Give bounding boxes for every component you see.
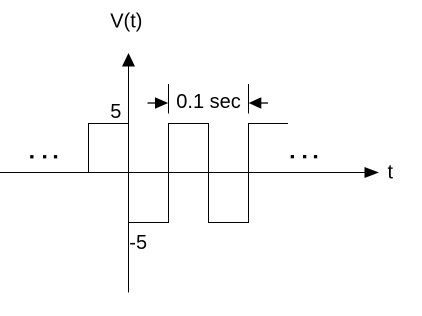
period dimension tick right [248, 84, 250, 114]
right ellipsis dots [291, 155, 317, 158]
svg-text:5: 5 [110, 101, 121, 123]
square wave polyline [89, 124, 289, 223]
V(t)-axis (vertical axis line) [128, 60, 130, 293]
svg-text:0.1 sec: 0.1 sec [176, 91, 240, 113]
t-axis arrowhead [365, 167, 380, 178]
right dimension arrow (points left) [249, 97, 268, 109]
left ellipsis dots [30, 155, 57, 158]
period dimension tick left [168, 84, 170, 114]
svg-text:-5: -5 [129, 232, 147, 254]
svg-text:t: t [388, 162, 394, 184]
t-axis (horizontal axis line) [0, 172, 365, 174]
svg-text:V(t): V(t) [110, 11, 142, 33]
left dimension arrow (points right) [148, 97, 169, 109]
V(t)-axis arrowhead [122, 53, 135, 67]
